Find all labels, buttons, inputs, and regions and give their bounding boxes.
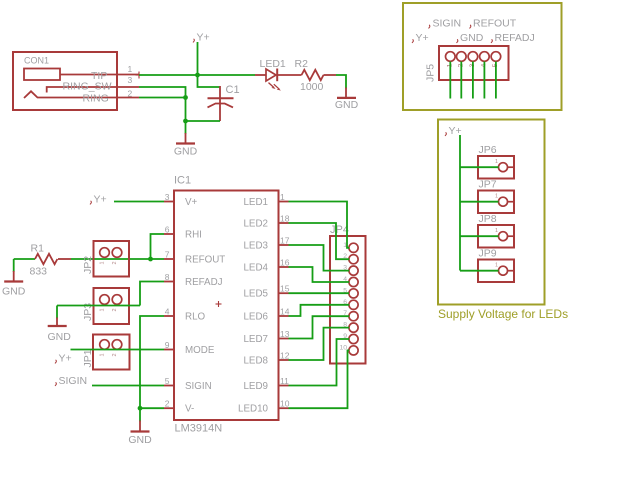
svg-text:3: 3: [128, 75, 133, 85]
svg-text:11: 11: [280, 376, 289, 386]
svg-text:Y+: Y+: [94, 194, 107, 206]
svg-text:LED10: LED10: [238, 404, 269, 415]
svg-text:R1: R1: [31, 243, 45, 255]
svg-text:10: 10: [280, 399, 290, 409]
svg-text:13: 13: [280, 329, 290, 339]
svg-text:LED8: LED8: [243, 355, 268, 366]
svg-text:833: 833: [30, 266, 48, 278]
svg-text:14: 14: [280, 307, 290, 317]
svg-text:SIGIN: SIGIN: [59, 375, 88, 387]
svg-text:1: 1: [100, 261, 106, 264]
svg-text:1: 1: [100, 308, 106, 311]
svg-text:LED1: LED1: [243, 197, 268, 208]
svg-text:LED1: LED1: [260, 58, 286, 70]
svg-text:JP5: JP5: [425, 64, 437, 82]
svg-text:2: 2: [112, 353, 118, 356]
svg-text:2: 2: [112, 261, 118, 264]
svg-text:LED5: LED5: [243, 289, 268, 300]
svg-text:2: 2: [165, 399, 170, 409]
svg-text:JP2: JP2: [82, 256, 94, 274]
svg-text:9: 9: [165, 340, 170, 350]
svg-text:16: 16: [280, 258, 290, 268]
svg-text:1: 1: [495, 263, 498, 269]
svg-text:1: 1: [100, 353, 106, 356]
svg-text:GND: GND: [460, 32, 484, 44]
svg-text:LED2: LED2: [243, 218, 268, 229]
svg-text:LED6: LED6: [243, 311, 268, 322]
svg-text:REFOUT: REFOUT: [185, 254, 225, 265]
svg-text:MODE: MODE: [185, 345, 215, 356]
svg-text:4: 4: [165, 307, 170, 317]
svg-text:15: 15: [280, 284, 290, 294]
svg-text:JP1: JP1: [82, 349, 94, 367]
svg-text:1: 1: [128, 64, 133, 74]
svg-text:V-: V-: [185, 404, 194, 415]
svg-text:JP9: JP9: [479, 248, 497, 260]
svg-text:IC1: IC1: [174, 175, 191, 187]
svg-text:GND: GND: [48, 331, 72, 343]
svg-text:1: 1: [495, 194, 498, 200]
svg-text:REFADJ: REFADJ: [185, 277, 223, 288]
svg-text:1: 1: [280, 192, 285, 202]
svg-text:RHI: RHI: [185, 229, 202, 240]
svg-text:1: 1: [495, 159, 498, 165]
svg-text:7: 7: [165, 250, 170, 260]
svg-text:RING: RING: [83, 93, 109, 105]
svg-text:REFADJ: REFADJ: [495, 32, 535, 44]
svg-text:REFOUT: REFOUT: [473, 18, 517, 30]
svg-text:Y+: Y+: [197, 32, 210, 44]
svg-text:1000: 1000: [300, 81, 324, 93]
svg-text:18: 18: [280, 214, 290, 224]
svg-text:LED4: LED4: [243, 262, 268, 273]
svg-text:5: 5: [165, 376, 170, 386]
svg-text:JP6: JP6: [479, 144, 497, 156]
svg-text:RLO: RLO: [185, 311, 206, 322]
svg-text:8: 8: [165, 272, 170, 282]
svg-text:Y+: Y+: [59, 353, 72, 365]
svg-text:SIGIN: SIGIN: [433, 18, 462, 30]
svg-text:6: 6: [165, 225, 170, 235]
svg-text:10: 10: [339, 344, 347, 351]
svg-text:LED7: LED7: [243, 334, 268, 345]
svg-text:GND: GND: [174, 146, 198, 158]
svg-text:12: 12: [280, 351, 290, 361]
svg-text:LED9: LED9: [243, 381, 268, 392]
svg-text:GND: GND: [128, 434, 152, 446]
svg-text:LED3: LED3: [243, 240, 268, 251]
svg-text:SIGIN: SIGIN: [185, 381, 212, 392]
svg-text:GND: GND: [2, 286, 26, 298]
svg-text:2: 2: [128, 89, 133, 99]
svg-text:JP8: JP8: [479, 213, 497, 225]
svg-text:C1: C1: [226, 84, 240, 96]
svg-text:RING_SW: RING_SW: [63, 81, 112, 93]
svg-text:3: 3: [165, 192, 170, 202]
svg-text:LM3914N: LM3914N: [175, 423, 223, 435]
svg-text:JP7: JP7: [479, 179, 497, 191]
svg-text:1: 1: [495, 228, 498, 234]
svg-text:GND: GND: [335, 99, 359, 111]
svg-text:R2: R2: [295, 58, 309, 70]
svg-text:CON1: CON1: [24, 56, 49, 66]
svg-text:V+: V+: [185, 197, 198, 208]
svg-text:Supply Voltage for LEDs: Supply Voltage for LEDs: [438, 307, 568, 321]
svg-text:17: 17: [280, 236, 290, 246]
svg-text:Y+: Y+: [416, 32, 429, 44]
svg-text:2: 2: [112, 308, 118, 311]
